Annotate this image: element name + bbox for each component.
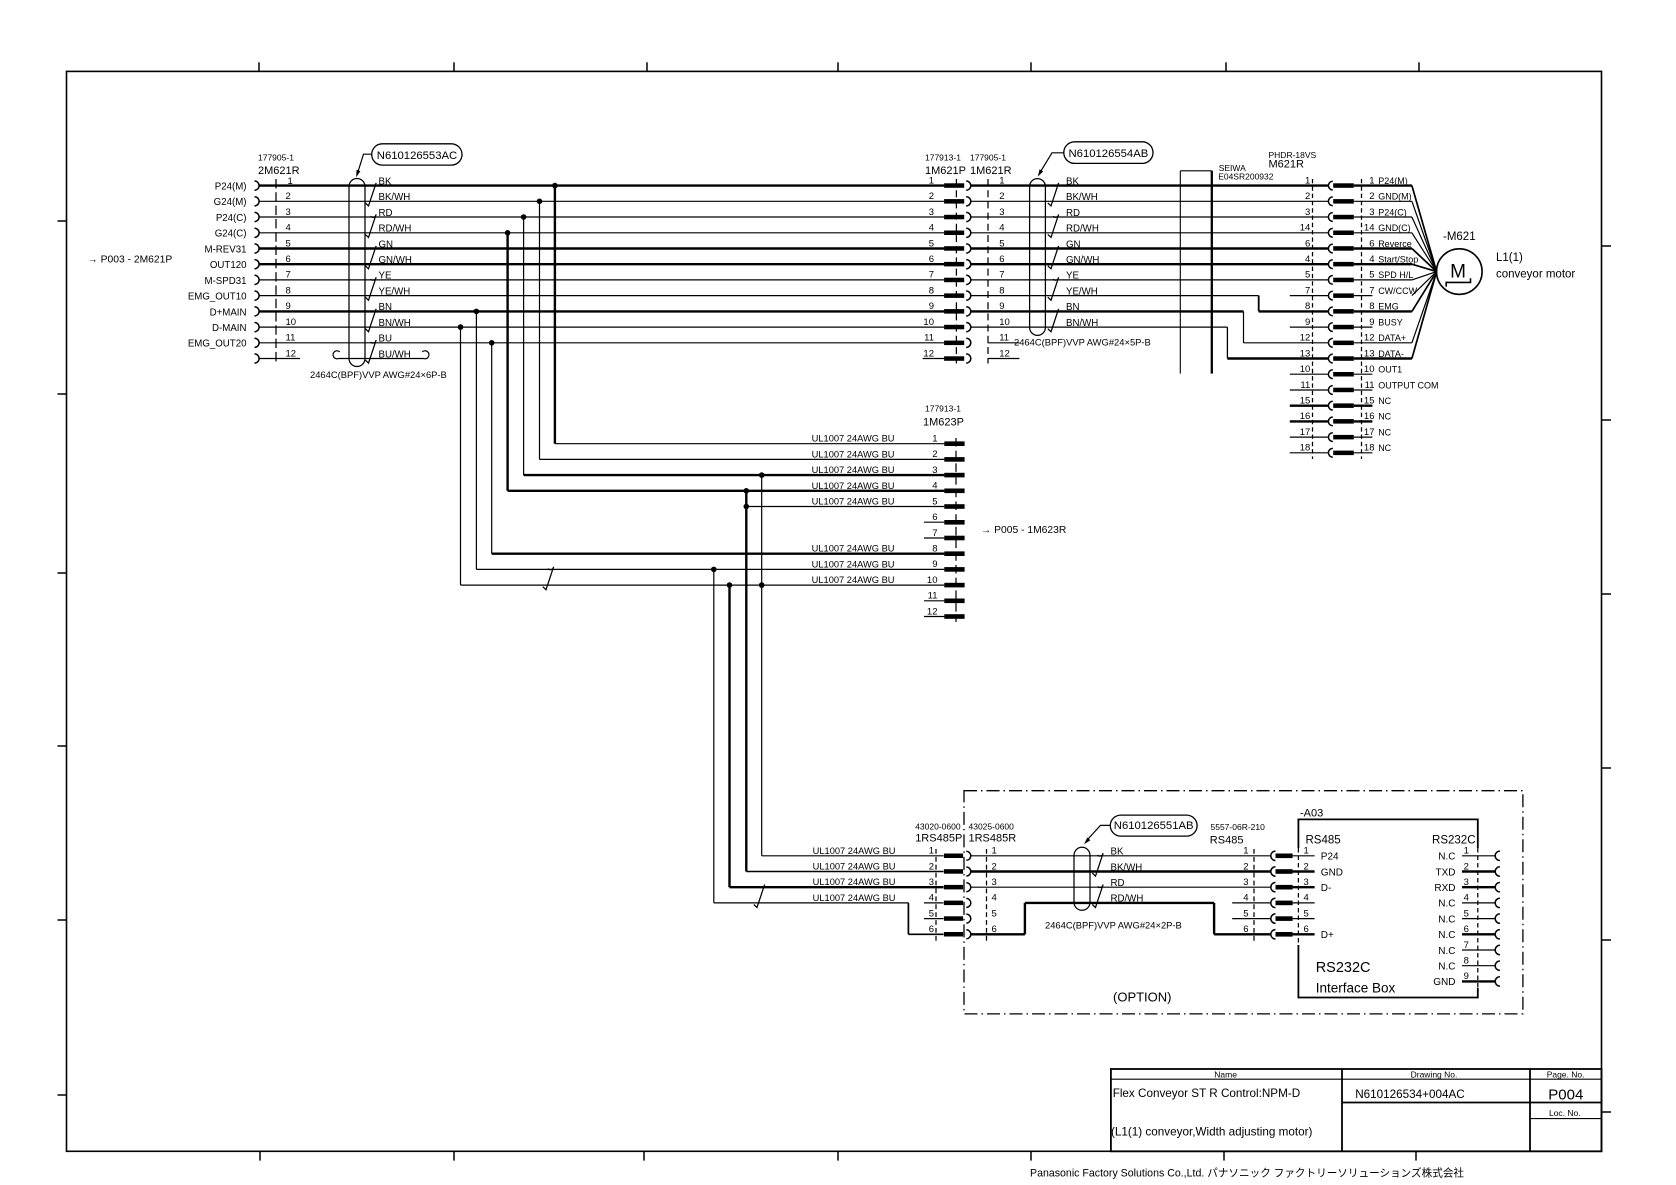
svg-text:5: 5 (929, 908, 934, 919)
M621R pin 18 left stub (1290, 452, 1329, 454)
svg-text:3: 3 (1305, 207, 1310, 218)
motor M621 circle (1437, 249, 1483, 295)
connector M621R pin 5 SPD H/L (1328, 276, 1332, 285)
M621R pin 12 wire to motor (1354, 342, 1412, 344)
wire 1M623P pin 11 stub (924, 600, 944, 602)
svg-text:EMG_OUT20: EMG_OUT20 (188, 339, 247, 350)
svg-text:DATA+: DATA+ (1378, 333, 1406, 343)
svg-text:P24(C): P24(C) (216, 213, 247, 224)
svg-text:1M621R: 1M621R (970, 165, 1012, 177)
wire 1RS485R pin1 to RS485 pin1 (971, 855, 1272, 857)
cable2 twisted pair mark 1 (1048, 183, 1059, 206)
svg-text:7: 7 (999, 270, 1004, 281)
svg-text:2464C(BPF)VVP AWG#24×5P-B: 2464C(BPF)VVP AWG#24×5P-B (1014, 337, 1151, 348)
connector 1M621P/1M621R mated pin 3 (944, 215, 964, 220)
junction on row 9 at x476 (474, 309, 480, 315)
M621R pin 17 right stub (1354, 436, 1373, 438)
wire 1M623P pin 6 stub (924, 521, 944, 523)
svg-text:6: 6 (1305, 238, 1310, 249)
svg-text:UL1007 24AWG BU: UL1007 24AWG BU (813, 877, 896, 887)
svg-text:D-: D- (1321, 883, 1332, 894)
svg-text:9: 9 (1464, 971, 1469, 982)
svg-text:CW/CCW: CW/CCW (1378, 286, 1417, 296)
svg-text:OUT120: OUT120 (210, 260, 247, 271)
connector 2M621R pin 1 (255, 181, 260, 190)
M621R pin 9 left stub (1290, 326, 1329, 328)
wire 2M621R pin2 to 1M621P pin2 (G24(M)) (259, 200, 944, 202)
svg-text:OUT1: OUT1 (1378, 365, 1402, 375)
wire 1M621R pin10 jog to M621R pin13 DATA- (971, 326, 1228, 328)
connector 1M623P pin 9 (944, 567, 964, 572)
wire 2M621R pin8 to 1M621P pin8 (EMG_OUT10) (259, 295, 944, 297)
connector 2M621R contact dashed line (275, 179, 277, 364)
branch wire row10 down to 1M623P pin10 (460, 327, 462, 585)
svg-text:17: 17 (1300, 427, 1311, 438)
svg-text:11: 11 (924, 333, 934, 344)
svg-text:EMG_OUT10: EMG_OUT10 (188, 292, 247, 303)
connector M621R pin 9 BUSY (1328, 323, 1332, 332)
svg-text:1M623P: 1M623P (923, 417, 964, 429)
svg-text:12: 12 (927, 606, 938, 617)
svg-text:RS485: RS485 (1210, 835, 1244, 847)
svg-text:RD: RD (379, 208, 393, 219)
interface box RS485 pin 1 P24 (1293, 855, 1315, 857)
svg-text:Interface Box: Interface Box (1316, 981, 1396, 996)
svg-text:3: 3 (999, 207, 1004, 218)
svg-text:UL1007 24AWG BU: UL1007 24AWG BU (812, 481, 895, 491)
connector 1RS485R contact dashed line (986, 849, 988, 941)
wire 2M621R pin11 to 1M621P pin11 (EMG_OUT20) (259, 342, 944, 344)
connector M621R pin 12 DATA+ (1328, 338, 1332, 347)
svg-text:4: 4 (929, 223, 934, 234)
svg-text:GN/WH: GN/WH (1066, 255, 1099, 266)
connector M621R pin 7 CW/CCW (1328, 291, 1332, 300)
cable3 twisted pair mark 1 (1092, 853, 1103, 876)
wire RS485 pin4 stub (1232, 902, 1271, 904)
cable N610126551AB shield oval (1074, 847, 1090, 910)
svg-text:RD/WH: RD/WH (1111, 894, 1144, 905)
junction 1M623P pin10 row (727, 582, 733, 588)
svg-text:GND: GND (1433, 977, 1455, 988)
connector RS485 contact dashed line (1253, 849, 1255, 941)
svg-text:TXD: TXD (1436, 867, 1456, 878)
wire 1RS485R pin3 to RS485 pin3 (971, 886, 1272, 888)
svg-text:177913-1: 177913-1 (925, 153, 961, 163)
ferrite core SEIWA E04SR200932 outline (1179, 171, 1181, 374)
svg-text:8: 8 (929, 285, 934, 296)
svg-text:2: 2 (286, 191, 291, 202)
M621R pin 16 right stub (1354, 420, 1373, 422)
wire 2M621R pin3 to 1M621P pin3 (P24(C)) (259, 216, 944, 218)
svg-text:8: 8 (1305, 301, 1310, 312)
cable2 twisted pair mark 4 (1048, 277, 1059, 300)
svg-text:UL1007 24AWG BU: UL1007 24AWG BU (812, 465, 895, 475)
junction 1M623P pin5 row (744, 504, 750, 510)
cable2 twisted pair mark 2 (1048, 214, 1059, 237)
svg-text:10: 10 (1364, 364, 1375, 375)
cable1 twisted pair mark 5 (365, 309, 376, 332)
RS232C interface box -A03 outline (1298, 819, 1477, 848)
wire 2M621R pin12 stub (259, 358, 300, 360)
M621R pin 13 wire to motor (1354, 357, 1412, 359)
connector 1RS485P/1RS485R mated pin 1 (944, 854, 963, 859)
svg-text:8: 8 (286, 285, 291, 296)
wire 2M621R pin1 to 1M621P pin1 (P24(M)) (259, 184, 944, 186)
svg-text:5: 5 (1464, 908, 1469, 919)
svg-text:18: 18 (1364, 443, 1375, 454)
cable1 twisted pair mark 3 (365, 246, 376, 269)
svg-text:YE/WH: YE/WH (1066, 286, 1098, 297)
wire into 1M623P pin 8 (492, 553, 945, 555)
svg-text:NC: NC (1378, 396, 1391, 406)
svg-text:N.C: N.C (1438, 899, 1455, 910)
wire 2M621R pin10 to 1M621P pin10 (D-MAIN) (259, 326, 944, 328)
connector 1M621P/1M621R mated pin 5 (944, 246, 964, 251)
svg-text:BK: BK (1066, 176, 1079, 187)
svg-text:BK: BK (1111, 847, 1124, 858)
wire 1M621R pin4 to M621R (RD/WH) (971, 232, 1329, 234)
svg-text:3: 3 (992, 877, 997, 888)
svg-text:6: 6 (1464, 924, 1469, 935)
connector RS485 5557 pin 3 (1271, 883, 1276, 892)
wire 1RS485P pin4 stub (924, 902, 944, 904)
svg-text:4: 4 (1243, 893, 1248, 904)
connector M621R pin 15 NC (1328, 401, 1332, 410)
M621R pin 6 wire to motor (1354, 247, 1412, 249)
motor lead from pin 12 (1412, 272, 1437, 343)
connector 1M621P/1M621R mated pin 12 (944, 356, 964, 361)
M621R pin 5 wire to motor (1354, 279, 1412, 281)
svg-text:UL1007 24AWG BU: UL1007 24AWG BU (813, 862, 896, 872)
svg-text:BK/WH: BK/WH (379, 192, 411, 203)
svg-text:UL1007 24AWG BU: UL1007 24AWG BU (812, 575, 895, 585)
M621R pin 11 left stub (1290, 389, 1329, 391)
wire into 1M623P pin 5 (746, 506, 944, 508)
connector M621R pin 16 NC (1328, 417, 1332, 426)
connector M621R pin 1 P24(M) (1328, 181, 1332, 190)
connector 1M623P contact dashed line (955, 438, 957, 622)
wire 1RS485P pin5 stub (924, 918, 944, 920)
svg-text:177905-1: 177905-1 (258, 153, 294, 163)
svg-text:Loc. No.: Loc. No. (1549, 1108, 1581, 1118)
motor lead from pin 4 (1412, 264, 1437, 271)
svg-text:BN: BN (1066, 302, 1079, 313)
twisted pair mark D+/D- (543, 567, 554, 590)
connector M621R pin 13 DATA- (1328, 354, 1332, 363)
svg-text:RD/WH: RD/WH (1066, 224, 1099, 235)
svg-text:1: 1 (1304, 846, 1309, 857)
junction 1M623P pin3 row (759, 472, 765, 478)
wire 1M621P pin12 stub (923, 358, 945, 360)
wire 1M623P pin 7 stub (924, 537, 944, 539)
svg-text:5: 5 (1305, 270, 1310, 281)
connector 1M621R contact dashed line (987, 179, 989, 364)
connector 1RS485P/1RS485R mated pin 4 (944, 901, 963, 906)
svg-text:9: 9 (1369, 317, 1374, 328)
svg-text:3: 3 (1243, 877, 1248, 888)
svg-text:4: 4 (999, 223, 1004, 234)
svg-text:GN/WH: GN/WH (379, 255, 412, 266)
svg-text:2: 2 (932, 449, 937, 460)
connector 1M621P/1M621R mated pin 10 (944, 325, 964, 330)
svg-text:P24(M): P24(M) (1378, 176, 1408, 186)
svg-text:N.C: N.C (1438, 914, 1455, 925)
svg-text:2: 2 (1304, 861, 1309, 872)
svg-text:N610126551AB: N610126551AB (1114, 820, 1194, 832)
motor lead from pin 7 (1412, 272, 1437, 296)
svg-text:conveyor motor: conveyor motor (1496, 269, 1575, 281)
svg-text:Panasonic Factory Solutions Co: Panasonic Factory Solutions Co.,Ltd. パナソ… (1030, 1167, 1464, 1180)
connector 1M621P/1M621R mated pin 1 (944, 183, 964, 188)
svg-text:4: 4 (1464, 893, 1469, 904)
svg-text:2M621R: 2M621R (258, 165, 300, 177)
cable N610126554AB balloon label and leader (1064, 142, 1153, 164)
svg-text:43020-0600: 43020-0600 (915, 822, 961, 832)
wire 2M621R pin7 to 1M621P pin7 (M-SPD31) (259, 279, 944, 281)
M621R pin 1 wire to motor (1354, 184, 1412, 186)
wire into 1M623P pin 3 (524, 474, 945, 476)
connector 2M621R pin 2 (255, 197, 260, 206)
cable2 twisted pair mark 3 (1048, 246, 1059, 269)
svg-text:E04SR200932: E04SR200932 (1218, 172, 1274, 182)
svg-text:3: 3 (1464, 877, 1469, 888)
svg-text:N610126553AC: N610126553AC (377, 150, 457, 162)
cable1 twisted pair mark 2 (365, 214, 376, 237)
svg-text:SPD H/L: SPD H/L (1378, 270, 1413, 280)
branch wire row4 down to 1M623P pin4 (506, 233, 508, 491)
svg-text:GND(M): GND(M) (1378, 192, 1412, 202)
motor lead from pin 2 (1412, 201, 1437, 271)
M621R pin 3 wire to motor (1354, 216, 1412, 218)
wire 1M621R pin11 stub (988, 342, 1020, 344)
svg-text:5: 5 (929, 238, 934, 249)
svg-text:YE: YE (379, 271, 392, 282)
svg-text:P24: P24 (1321, 852, 1339, 863)
svg-text:177913-1: 177913-1 (925, 404, 961, 414)
svg-text:→ P003 - 2M621P: → P003 - 2M621P (88, 255, 173, 266)
svg-text:UL1007 24AWG BU: UL1007 24AWG BU (812, 497, 895, 507)
svg-text:N610126554AB: N610126554AB (1069, 148, 1149, 160)
wire into 1RS485P pin1 (P24) (762, 855, 944, 857)
svg-text:N.C: N.C (1438, 946, 1455, 957)
connector 1M621P/1M621R mated pin 8 (944, 293, 964, 298)
title block grid (1111, 1069, 1602, 1151)
branch wire row9 down to 1M623P pin9 (475, 311, 477, 569)
svg-text:177905-1: 177905-1 (970, 153, 1006, 163)
cable1 twisted pair mark 6 (365, 340, 376, 363)
svg-text:2: 2 (929, 191, 934, 202)
svg-text:1: 1 (992, 846, 997, 857)
svg-text:10: 10 (927, 575, 938, 586)
connector M621R pin 3 P24(C) (1328, 213, 1332, 222)
svg-text:4: 4 (992, 893, 997, 904)
connector 2M621R pin 5 (255, 244, 260, 253)
svg-text:(L1(1) conveyor,Width adjustin: (L1(1) conveyor,Width adjusting motor) (1111, 1126, 1312, 1139)
connector 1M623P pin 8 (944, 551, 964, 556)
interface box RS485 pin 2 GND (1293, 870, 1315, 872)
svg-text:GND(C): GND(C) (1378, 223, 1411, 233)
wire into 1M623P pin 4 (508, 490, 945, 492)
motor lead from pin 5 (1412, 272, 1437, 280)
cable N610126551AB balloon label and leader (1110, 815, 1197, 836)
connector M621R pin 4 Start/Stop (1328, 260, 1332, 269)
svg-text:BK: BK (379, 176, 392, 187)
branch wire D- down to 1RS485P pin3 (728, 585, 730, 887)
svg-text:UL1007 24AWG BU: UL1007 24AWG BU (813, 846, 896, 856)
wire 1M621R pin2 to M621R (BK/WH) (971, 200, 1329, 202)
connector M621R left dashed line (1312, 179, 1314, 459)
svg-text:NC: NC (1378, 412, 1391, 422)
branch wire P24 down to 1RS485P pin1 (761, 475, 763, 856)
svg-text:BN/WH: BN/WH (379, 318, 411, 329)
connector 2M621R pin 9 (255, 307, 260, 316)
connector M621R pin 14 GND(C) (1328, 228, 1332, 237)
svg-text:8: 8 (999, 285, 1004, 296)
svg-text:12: 12 (999, 348, 1010, 359)
branch wire row2 down to 1M623P pin2 (539, 201, 541, 459)
branch wire D+ down to 1RS485P (713, 569, 715, 903)
svg-text:UL1007 24AWG BU: UL1007 24AWG BU (812, 434, 895, 444)
connector 2M621R pin 8 (255, 291, 260, 300)
svg-text:5: 5 (1304, 908, 1309, 919)
M621R pin 10 right stub (1354, 373, 1373, 375)
cable2 twisted pair mark 5 (1048, 309, 1059, 332)
wire 2M621R pin4 to 1M621P pin4 (G24(C)) (259, 232, 944, 234)
cable shield drain wire with pigtails (333, 351, 343, 359)
junction 1M623P pin9 row (711, 567, 717, 573)
connector M621R pin 18 NC (1328, 448, 1332, 457)
svg-text:43025-0600: 43025-0600 (969, 822, 1015, 832)
wire 1M621R pin12 stub (988, 358, 1020, 360)
svg-text:6: 6 (1243, 924, 1248, 935)
svg-text:YE: YE (1066, 271, 1079, 282)
interface box RS232C pin 5 N.C (1462, 918, 1496, 920)
svg-text:12: 12 (286, 348, 297, 359)
svg-text:10: 10 (286, 317, 297, 328)
connector M621R pin 8 EMG (1328, 307, 1332, 316)
cable N610126553AC shield oval (349, 179, 365, 367)
branch wire row1 down to 1M623P pin1 (554, 186, 556, 444)
svg-text:6: 6 (929, 254, 934, 265)
svg-text:13: 13 (1300, 348, 1311, 359)
svg-text:RXD: RXD (1434, 883, 1455, 894)
svg-text:BUSY: BUSY (1378, 317, 1403, 327)
wire jog into 1RS485P pin6 (D+) (714, 902, 909, 904)
svg-text:UL1007 24AWG BU: UL1007 24AWG BU (813, 893, 896, 903)
svg-text:P004: P004 (1548, 1087, 1583, 1104)
svg-text:11: 11 (1300, 380, 1310, 391)
wire 1RS485R pin6 jog to RS485 pin6 (D+) (971, 933, 1025, 935)
svg-text:5: 5 (992, 908, 997, 919)
svg-text:N.C: N.C (1438, 962, 1455, 973)
motor lead from pin 14 (1412, 233, 1437, 272)
svg-text:D-MAIN: D-MAIN (212, 323, 246, 334)
svg-text:NC: NC (1378, 427, 1391, 437)
motor lead from pin 1 (1412, 186, 1437, 272)
twisted pair mark D+/D- left (754, 885, 765, 908)
svg-text:7: 7 (1369, 285, 1374, 296)
svg-text:17: 17 (1364, 427, 1375, 438)
svg-text:5557-06R-210: 5557-06R-210 (1211, 822, 1266, 832)
connector 1M623P pin 10 (944, 583, 964, 588)
svg-text:D+MAIN: D+MAIN (210, 307, 247, 318)
svg-text:P24(M): P24(M) (215, 182, 247, 193)
svg-text:5: 5 (1243, 908, 1248, 919)
svg-text:4: 4 (1304, 893, 1309, 904)
svg-text:BK/WH: BK/WH (1111, 862, 1143, 873)
svg-text:Flex Conveyor ST R Control:NPM: Flex Conveyor ST R Control:NPM-D (1113, 1087, 1300, 1100)
motor lead from pin 8 (1412, 272, 1437, 312)
svg-text:-A03: -A03 (1300, 808, 1323, 820)
wire RS485 pin5 stub (1232, 918, 1271, 920)
M621R pin 15 right stub (1354, 405, 1373, 407)
svg-text:5: 5 (1369, 270, 1374, 281)
svg-text:→ P005 - 1M623R: → P005 - 1M623R (981, 525, 1066, 536)
svg-text:1: 1 (929, 846, 934, 857)
wire 1M621R pin1 to M621R (BK) (971, 184, 1329, 186)
option boundary box (964, 791, 1523, 1014)
connector 1M623P pin 7 (944, 536, 964, 541)
connector 1M623P pin 1 (944, 441, 964, 446)
connector 1M621P/1M621R mated pin 9 (944, 309, 964, 314)
svg-text:7: 7 (1464, 940, 1469, 951)
cable1 twisted pair mark 1 (365, 183, 376, 206)
svg-text:1: 1 (932, 434, 937, 445)
svg-text:2: 2 (999, 191, 1004, 202)
junction on row 4 at x508 (505, 230, 511, 236)
svg-text:GN: GN (379, 239, 394, 250)
svg-text:RS232C: RS232C (1316, 960, 1371, 976)
svg-text:5: 5 (932, 496, 937, 507)
wire into 1M623P pin 1 (555, 443, 945, 445)
svg-text:RD: RD (1066, 208, 1080, 219)
svg-text:6: 6 (929, 924, 934, 935)
svg-text:3: 3 (1304, 877, 1309, 888)
svg-text:BK/WH: BK/WH (1066, 192, 1098, 203)
junction on row 2 at x540 (537, 199, 543, 205)
svg-text:UL1007 24AWG BU: UL1007 24AWG BU (812, 449, 895, 459)
motor lead from pin 13 (1412, 272, 1437, 359)
svg-text:18: 18 (1300, 443, 1311, 454)
connector 2M621R pin 3 (255, 212, 260, 221)
svg-text:9: 9 (1305, 317, 1310, 328)
svg-text:2: 2 (1243, 861, 1248, 872)
svg-text:YE/WH: YE/WH (379, 286, 411, 297)
svg-text:7: 7 (286, 270, 291, 281)
svg-text:BN: BN (379, 302, 392, 313)
connector M621R pin 10 OUT1 (1328, 370, 1332, 379)
svg-text:12: 12 (923, 348, 934, 359)
svg-text:2: 2 (1369, 191, 1374, 202)
svg-text:Name: Name (1214, 1069, 1237, 1079)
svg-text:BU/WH: BU/WH (379, 349, 411, 360)
M621R pin 2 wire to motor (1354, 200, 1412, 202)
svg-text:3: 3 (1369, 207, 1374, 218)
wire 2M621R pin9 to 1M621P pin9 (D+MAIN) (259, 310, 944, 312)
svg-text:3: 3 (286, 207, 291, 218)
M621R pin 17 left stub (1290, 436, 1329, 438)
M621R pin 14 wire to motor (1354, 232, 1412, 234)
connector 1M621P/1M621R mated pin 11 (944, 341, 964, 346)
svg-text:BU: BU (379, 334, 392, 345)
motor base bracket (1446, 278, 1470, 286)
svg-text:M621R: M621R (1269, 159, 1305, 171)
connector 1M623P pin 5 (944, 504, 964, 509)
wire 1RS485R pin2 to RS485 pin2 (971, 870, 1272, 872)
connector M621R pin 11 OUTPUT COM (1328, 386, 1332, 395)
svg-text:10: 10 (923, 317, 934, 328)
wire into 1M623P pin 9 (476, 568, 944, 570)
